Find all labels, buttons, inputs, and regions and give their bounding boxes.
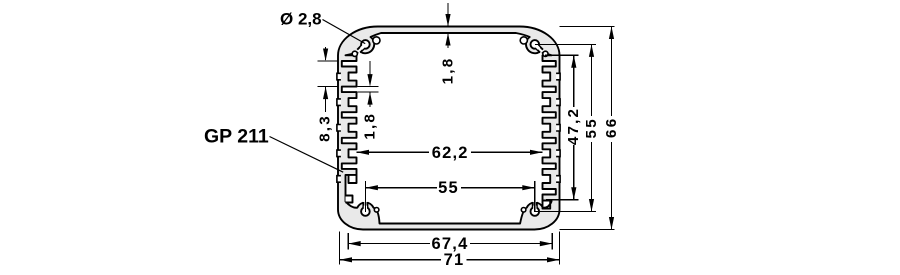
svg-text:Ø 2,8: Ø 2,8 (280, 10, 322, 29)
svg-text:1,8: 1,8 (361, 112, 378, 140)
svg-text:62,2: 62,2 (432, 144, 469, 162)
svg-text:GP 211: GP 211 (204, 126, 269, 148)
svg-text:55: 55 (438, 179, 459, 197)
svg-text:47,2: 47,2 (565, 107, 582, 145)
svg-text:55: 55 (583, 117, 600, 138)
svg-text:1,8: 1,8 (440, 57, 457, 85)
svg-text:66: 66 (603, 117, 620, 138)
svg-text:71: 71 (444, 251, 465, 269)
svg-text:8,3: 8,3 (317, 114, 334, 142)
